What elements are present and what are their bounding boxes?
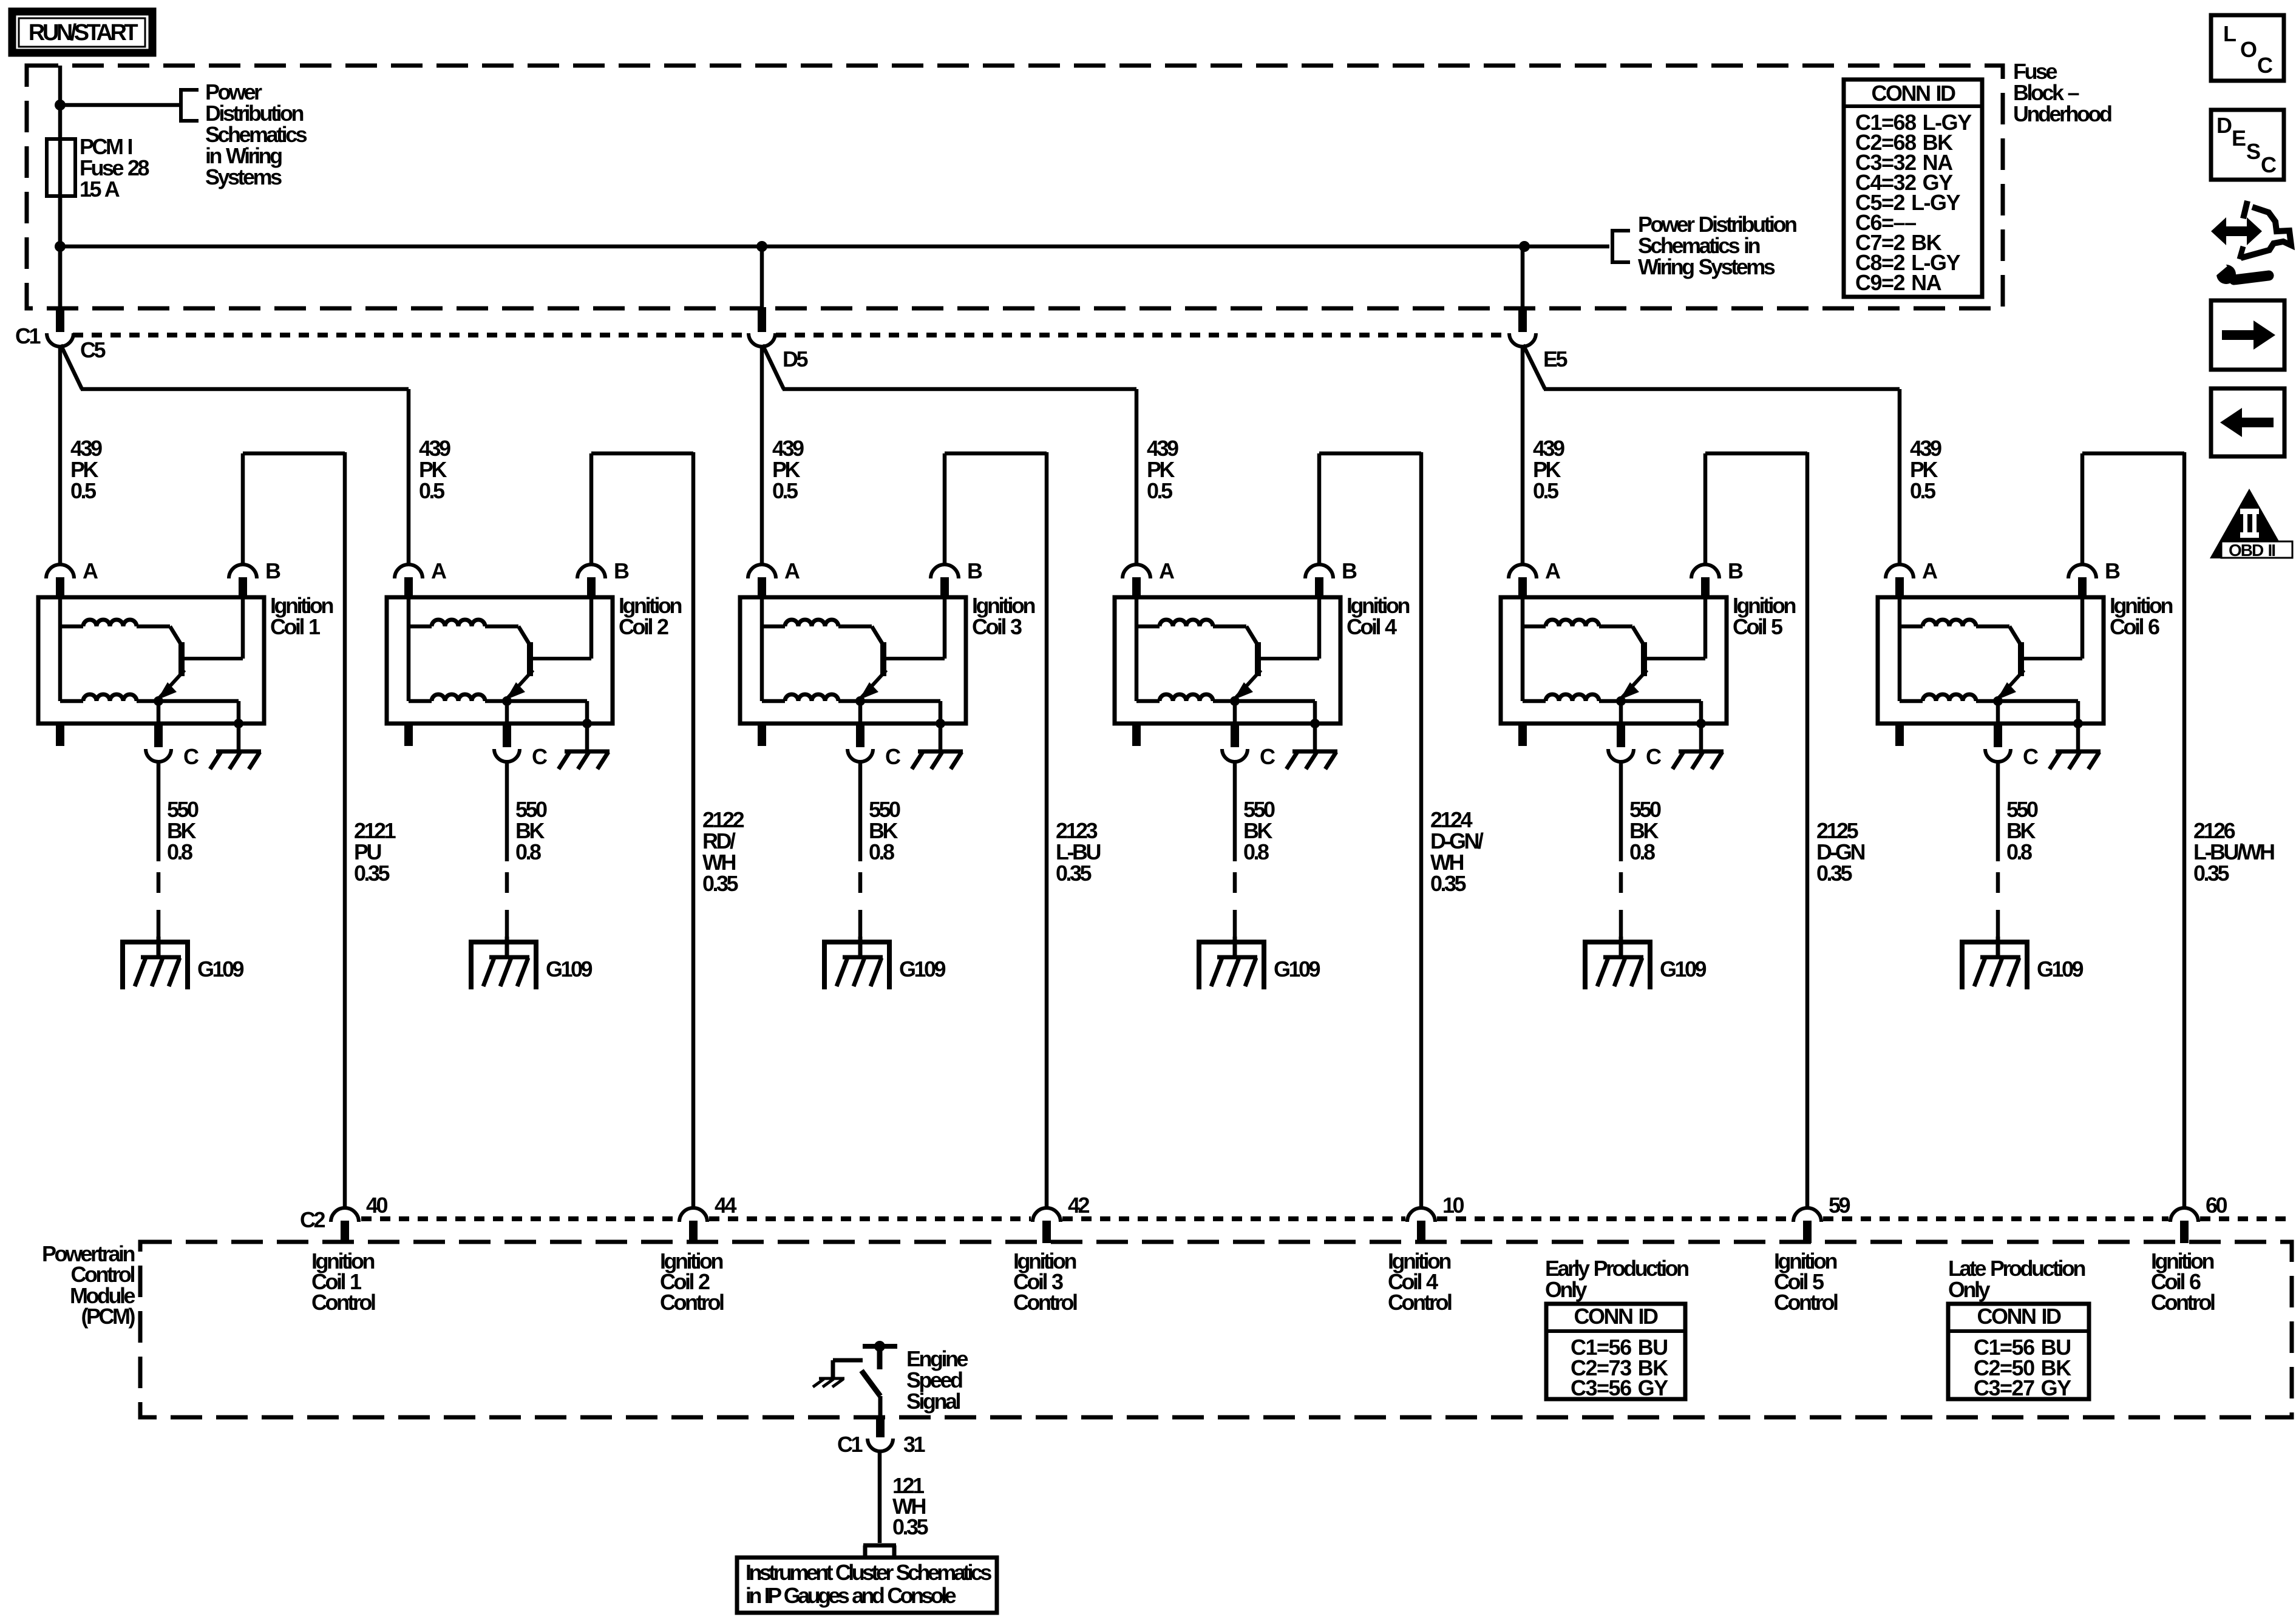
ground G109 (coil 1) bbox=[120, 937, 190, 989]
ground G109 (coil 3) bbox=[822, 937, 892, 989]
coil 5 ground junction on case bbox=[1696, 719, 1706, 728]
label pin C (coil 4) bbox=[1260, 744, 1275, 769]
coil 2 ground junction on case bbox=[582, 719, 592, 728]
svg-text:G109: G109 bbox=[546, 957, 593, 981]
coil 3 internal ground link bbox=[860, 701, 940, 724]
svg-text:B: B bbox=[1342, 558, 1357, 583]
svg-text:0.35: 0.35 bbox=[702, 871, 739, 896]
wire coil 3 control from pin B bbox=[945, 453, 1047, 566]
svg-text:Control: Control bbox=[660, 1290, 724, 1315]
label pin A (coil 1) bbox=[83, 558, 98, 583]
label G109 (coil 6) bbox=[2037, 957, 2084, 981]
label C2 (PCM connector) bbox=[300, 1207, 325, 1232]
coil 1 case ground bbox=[210, 724, 261, 769]
ignition coil 6 pin A connector bbox=[1886, 564, 1914, 598]
coil 3 case ground bbox=[912, 724, 963, 769]
label pin B (coil 1) bbox=[265, 558, 280, 583]
label G109 (coil 1) bbox=[197, 957, 244, 981]
label Ignition Coil 3 bbox=[972, 593, 1034, 639]
label circuit 439 PK 0.5 (coil 6 feed) bbox=[1910, 436, 1941, 503]
label G109 (coil 5) bbox=[1660, 957, 1707, 981]
label Ignition Coil 6 bbox=[2110, 593, 2172, 639]
svg-text:15 A: 15 A bbox=[80, 177, 120, 202]
wire coil 1 pin C to ground (550 BK) bbox=[157, 762, 161, 937]
label pin 42 bbox=[1068, 1193, 1090, 1218]
svg-text:C: C bbox=[183, 744, 199, 769]
ignition coil 2 pin B connector bbox=[577, 564, 605, 598]
svg-text:0.5: 0.5 bbox=[70, 478, 97, 503]
wire coil 2 control to PCM pin 44 bbox=[691, 452, 696, 1207]
coil 1 emitter junction bbox=[154, 696, 163, 706]
coil 1 secondary winding bbox=[60, 694, 158, 701]
ignition coil 1 pin B connector bbox=[229, 564, 257, 598]
label pin C (coil 2) bbox=[532, 744, 548, 769]
svg-text:G109: G109 bbox=[197, 957, 244, 981]
label pin C (coil 6) bbox=[2023, 744, 2039, 769]
ignition coil 3 box bbox=[740, 597, 966, 724]
svg-text:0.5: 0.5 bbox=[419, 478, 445, 503]
label Ignition Coil 5 Control bbox=[1774, 1249, 1838, 1315]
coil 1 internal ground link bbox=[158, 701, 239, 724]
coil 6 emitter junction bbox=[1993, 696, 2003, 706]
coil 2 driver transistor bbox=[506, 597, 591, 700]
coil 5 internal ground link bbox=[1621, 701, 1701, 724]
coil 5 unused pin stub bbox=[1518, 724, 1527, 746]
svg-text:Coil 6: Coil 6 bbox=[2110, 614, 2159, 639]
label pin 31 bbox=[903, 1432, 926, 1457]
svg-text:A: A bbox=[1159, 558, 1175, 583]
svg-text:Only: Only bbox=[1948, 1277, 1990, 1302]
wire coil 3 control to PCM pin 42 bbox=[1045, 452, 1049, 1207]
ignition coil 1 pin A connector bbox=[46, 564, 74, 598]
label Powertrain Control Module (PCM) bbox=[42, 1241, 135, 1329]
coil 4 emitter junction bbox=[1230, 696, 1240, 706]
label circuit 2126 (coil 6 control) bbox=[2193, 818, 2274, 886]
coil 4 secondary winding bbox=[1136, 694, 1235, 701]
svg-text:G109: G109 bbox=[2037, 957, 2084, 981]
svg-text:D: D bbox=[2216, 113, 2232, 138]
svg-text:A: A bbox=[784, 558, 800, 583]
svg-text:C: C bbox=[885, 744, 901, 769]
fuse block - underhood dashed box bbox=[27, 66, 2003, 308]
svg-text:Coil 3: Coil 3 bbox=[972, 614, 1022, 639]
ignition coil 1 pin C connector bbox=[146, 724, 171, 762]
coil 4 internal ground link bbox=[1235, 701, 1315, 724]
label circuit 439 PK 0.5 (coil 3 feed) bbox=[772, 436, 804, 503]
svg-text:A: A bbox=[1922, 558, 1938, 583]
coil 4 primary winding bbox=[1136, 597, 1258, 701]
ground G109 (coil 4) bbox=[1197, 937, 1266, 989]
label Power Distribution Schematics in Wiring Systems bbox=[205, 80, 307, 189]
label Ignition Coil 1 bbox=[270, 593, 333, 639]
svg-text:Only: Only bbox=[1545, 1277, 1587, 1302]
ignition coil 3 pin A connector bbox=[748, 564, 776, 598]
wire coil 6 control from pin B bbox=[2082, 453, 2184, 566]
label pin B (coil 2) bbox=[614, 558, 629, 583]
engine speed signal switch lever bbox=[861, 1371, 880, 1417]
label Engine Speed Signal bbox=[906, 1346, 968, 1414]
label pin 60 bbox=[2206, 1193, 2227, 1218]
svg-text:10: 10 bbox=[1442, 1193, 1464, 1218]
svg-text:C: C bbox=[2257, 53, 2273, 78]
wire coil 1 control to PCM pin 40 bbox=[343, 452, 347, 1207]
label circuit 439 PK 0.5 (coil 1 feed) bbox=[70, 436, 102, 503]
early production CONN ID table bbox=[1546, 1304, 1685, 1400]
label pin C (coil 1) bbox=[183, 744, 199, 769]
wire bus to connector E5 bbox=[1521, 246, 1525, 308]
ignition coil 5 pin A connector bbox=[1509, 564, 1537, 598]
coil 4 driver transistor bbox=[1234, 597, 1319, 700]
coil 5 primary winding bbox=[1523, 597, 1644, 701]
wire E5 to ignition coil 5 pin A bbox=[1521, 346, 1525, 566]
PCM pin 60 connector bbox=[2170, 1208, 2198, 1243]
svg-text:B: B bbox=[2105, 558, 2120, 583]
ignition coil 2 box bbox=[387, 597, 613, 724]
svg-text:C: C bbox=[1260, 744, 1275, 769]
wire C5 branch to ignition coil 2 pin A bbox=[61, 345, 409, 566]
svg-text:B: B bbox=[265, 558, 280, 583]
ignition coil 2 pin A connector bbox=[395, 564, 423, 598]
wire E5 branch to ignition coil 6 pin A bbox=[1523, 345, 1900, 566]
label G109 (coil 3) bbox=[899, 957, 946, 981]
off-page terminal fork bbox=[863, 1545, 896, 1559]
powertrain control module (PCM) dashed box bbox=[140, 1242, 2292, 1417]
coil 3 driver transistor bbox=[859, 597, 945, 700]
coil 6 secondary winding bbox=[1900, 694, 1998, 701]
PCM pin 59 connector bbox=[1793, 1208, 1821, 1243]
svg-text:0.8: 0.8 bbox=[869, 839, 894, 864]
label G109 (coil 4) bbox=[1274, 957, 1320, 981]
svg-text:B: B bbox=[614, 558, 629, 583]
wire coil 2 control from pin B bbox=[591, 453, 693, 566]
svg-text:L: L bbox=[2223, 21, 2237, 46]
label circuit 550 BK 0.8 (coil 6) bbox=[2006, 797, 2038, 864]
label circuit 2122 (coil 2 control) bbox=[702, 807, 744, 896]
svg-text:C3=27 GY: C3=27 GY bbox=[1974, 1375, 2071, 1400]
label circuit 550 BK 0.8 (coil 1) bbox=[167, 797, 199, 864]
wire 121 WH to instrument cluster bbox=[878, 1451, 882, 1543]
coil 3 emitter junction bbox=[855, 696, 865, 706]
wire fuse to connector C1 bbox=[58, 196, 63, 308]
ignition coil 4 pin C connector bbox=[1222, 724, 1248, 762]
svg-text:in IP Gauges and Console: in IP Gauges and Console bbox=[746, 1583, 956, 1608]
label Ignition Coil 2 bbox=[619, 593, 681, 639]
ignition coil 4 pin A connector bbox=[1123, 564, 1150, 598]
coil 6 case ground bbox=[2050, 724, 2101, 769]
svg-text:Coil 2: Coil 2 bbox=[619, 614, 668, 639]
instrument cluster schematics reference box bbox=[737, 1558, 997, 1613]
svg-text:A: A bbox=[431, 558, 447, 583]
label circuit 2125 (coil 5 control) bbox=[1816, 818, 1864, 886]
connector D5 socket bbox=[749, 333, 775, 347]
svg-text:B: B bbox=[1728, 558, 1743, 583]
wire D5 branch to ignition coil 4 pin A bbox=[763, 345, 1136, 566]
wire coil 1 control from pin B bbox=[243, 453, 345, 566]
svg-text:C3=56 GY: C3=56 GY bbox=[1571, 1375, 1668, 1400]
svg-text:0.35: 0.35 bbox=[354, 861, 390, 886]
label Ignition Coil 1 Control bbox=[311, 1249, 375, 1315]
label Ignition Coil 6 Control bbox=[2151, 1249, 2215, 1315]
svg-text:44: 44 bbox=[715, 1193, 737, 1218]
ground G109 (coil 6) bbox=[1960, 937, 2029, 989]
label pin A (coil 4) bbox=[1159, 558, 1175, 583]
svg-text:0.8: 0.8 bbox=[167, 839, 192, 864]
ignition coil 6 pin B connector bbox=[2068, 564, 2096, 598]
label Late Production Only bbox=[1948, 1256, 2085, 1302]
wire coil 2 pin C to ground (550 BK) bbox=[505, 762, 509, 937]
PCM pin 31 connector C1 bbox=[868, 1417, 893, 1451]
label Ignition Coil 3 Control bbox=[1013, 1249, 1077, 1315]
icon wrench / diagnostic pointer bbox=[2210, 201, 2291, 284]
svg-text:C1: C1 bbox=[837, 1432, 863, 1457]
svg-text:A: A bbox=[1545, 558, 1561, 583]
label circuit 439 PK 0.5 (coil 5 feed) bbox=[1533, 436, 1564, 503]
label Ignition Coil 4 bbox=[1347, 593, 1409, 639]
svg-text:C5: C5 bbox=[80, 337, 106, 362]
label pin A (coil 3) bbox=[784, 558, 800, 583]
ignition coil 3 pin C connector bbox=[847, 724, 873, 762]
svg-text:0.5: 0.5 bbox=[1147, 478, 1173, 503]
coil 1 primary winding bbox=[60, 597, 182, 701]
wire from RUN/START into fuse block bbox=[58, 66, 63, 308]
label Ignition Coil 2 Control bbox=[660, 1249, 724, 1315]
wire coil 5 pin C to ground (550 BK) bbox=[1619, 762, 1623, 937]
coil 1 driver transistor bbox=[157, 597, 243, 700]
icon OBD II triangle bbox=[2210, 489, 2292, 560]
svg-text:Control: Control bbox=[1013, 1290, 1077, 1315]
icon right-arrow box bbox=[2211, 300, 2284, 370]
svg-text:Control: Control bbox=[1774, 1290, 1838, 1315]
label PCM I Fuse 28 15 A bbox=[80, 134, 149, 202]
svg-text:0.35: 0.35 bbox=[2193, 861, 2230, 886]
wire coil 4 control to PCM pin 10 bbox=[1419, 452, 1424, 1207]
icon DESC box bbox=[2211, 110, 2284, 180]
svg-text:C9=2 NA: C9=2 NA bbox=[1855, 270, 1942, 295]
svg-text:Coil 1: Coil 1 bbox=[270, 614, 321, 639]
label pin A (coil 2) bbox=[431, 558, 447, 583]
coil 6 driver transistor bbox=[1997, 597, 2082, 700]
svg-text:S: S bbox=[2246, 139, 2261, 164]
connector C1/C5 socket bbox=[47, 333, 73, 347]
coil 2 case ground bbox=[559, 724, 610, 769]
coil 6 ground junction on case bbox=[2073, 719, 2083, 728]
svg-text:C2: C2 bbox=[300, 1207, 325, 1232]
svg-text:0.35: 0.35 bbox=[1056, 861, 1092, 886]
coil 6 internal ground link bbox=[1998, 701, 2078, 724]
svg-text:60: 60 bbox=[2206, 1193, 2227, 1218]
ignition coil 5 pin B connector bbox=[1691, 564, 1719, 598]
PCM pin 42 connector bbox=[1033, 1208, 1061, 1243]
junction node on PCM I fuse feed bbox=[55, 100, 66, 110]
svg-text:0.8: 0.8 bbox=[1243, 839, 1269, 864]
svg-text:(PCM): (PCM) bbox=[81, 1304, 135, 1329]
label circuit 121 WH 0.35 bbox=[892, 1473, 929, 1539]
connector D5 pin stub bbox=[758, 307, 766, 332]
reference bracket (power distribution 1) bbox=[180, 88, 199, 123]
label pin 40 bbox=[366, 1193, 388, 1218]
wire coil 6 control to PCM pin 60 bbox=[2182, 452, 2187, 1207]
ignition coil 4 pin B connector bbox=[1305, 564, 1333, 598]
svg-text:G109: G109 bbox=[1660, 957, 1707, 981]
svg-text:C1: C1 bbox=[15, 324, 41, 348]
label Power Distribution Schematics in Wiring Systems (right) bbox=[1638, 212, 1796, 279]
coil 3 unused pin stub bbox=[758, 724, 766, 746]
label circuit 550 BK 0.8 (coil 3) bbox=[869, 797, 900, 864]
svg-text:C: C bbox=[532, 744, 548, 769]
svg-text:E5: E5 bbox=[1543, 347, 1568, 371]
label pin C (coil 3) bbox=[885, 744, 901, 769]
engine speed signal internal ground bbox=[813, 1378, 844, 1387]
svg-text:Control: Control bbox=[1388, 1290, 1452, 1315]
svg-text:D5: D5 bbox=[783, 347, 808, 371]
ignition coil 6 pin C connector bbox=[1985, 724, 2011, 762]
label circuit 439 PK 0.5 (coil 4 feed) bbox=[1147, 436, 1178, 503]
label pin C (coil 5) bbox=[1646, 744, 1662, 769]
svg-text:0.35: 0.35 bbox=[1816, 861, 1853, 886]
svg-text:0.8: 0.8 bbox=[1629, 839, 1655, 864]
label circuit 2121 (coil 1 control) bbox=[354, 818, 396, 886]
svg-text:A: A bbox=[83, 558, 98, 583]
connector E5 pin stub bbox=[1518, 307, 1527, 332]
wire to power distribution reference bbox=[60, 103, 181, 107]
svg-text:0.5: 0.5 bbox=[1910, 478, 1936, 503]
svg-text:G109: G109 bbox=[899, 957, 946, 981]
connector E5 socket bbox=[1509, 333, 1536, 347]
svg-text:0.35: 0.35 bbox=[1430, 871, 1467, 896]
svg-text:CONN ID: CONN ID bbox=[1977, 1304, 2062, 1329]
svg-text:Control: Control bbox=[2151, 1290, 2215, 1315]
label E5 bbox=[1543, 347, 1568, 371]
wire D5 to ignition coil 3 pin A bbox=[760, 346, 764, 566]
svg-text:Coil 4: Coil 4 bbox=[1347, 614, 1397, 639]
svg-text:0.8: 0.8 bbox=[515, 839, 541, 864]
label circuit 2123 (coil 3 control) bbox=[1056, 818, 1100, 886]
wire coil 6 pin C to ground (550 BK) bbox=[1996, 762, 2000, 937]
label circuit 550 BK 0.8 (coil 4) bbox=[1243, 797, 1275, 864]
coil 1 unused pin stub bbox=[56, 724, 64, 746]
svg-text:Underhood: Underhood bbox=[2013, 101, 2111, 126]
PCM pin 44 connector bbox=[679, 1208, 707, 1243]
label pin 44 bbox=[715, 1193, 737, 1218]
ignition coil 5 box bbox=[1501, 597, 1727, 724]
ignition coil 6 box bbox=[1878, 597, 2104, 724]
svg-text:E: E bbox=[2232, 126, 2246, 151]
svg-text:0.5: 0.5 bbox=[772, 478, 798, 503]
reference bracket (power distribution 2) bbox=[1611, 229, 1630, 264]
connector C1/C5 pin stub bbox=[56, 307, 64, 332]
PCM pin 40 connector bbox=[331, 1208, 359, 1243]
label pin B (coil 3) bbox=[967, 558, 982, 583]
coil 5 secondary winding bbox=[1523, 694, 1621, 701]
svg-text:Signal: Signal bbox=[906, 1389, 960, 1414]
ignition coil 2 pin C connector bbox=[494, 724, 520, 762]
ignition coil 1 box bbox=[38, 597, 264, 724]
svg-text:CONN ID: CONN ID bbox=[1872, 81, 1956, 106]
svg-text:G109: G109 bbox=[1274, 957, 1320, 981]
label C5 bbox=[80, 337, 106, 362]
ground G109 (coil 2) bbox=[469, 937, 538, 989]
svg-text:40: 40 bbox=[366, 1193, 388, 1218]
coil 3 primary winding bbox=[762, 597, 883, 701]
svg-text:59: 59 bbox=[1829, 1193, 1850, 1218]
svg-text:O: O bbox=[2240, 37, 2257, 62]
label circuit 550 BK 0.8 (coil 5) bbox=[1629, 797, 1661, 864]
svg-text:Instrument Cluster Schematics: Instrument Cluster Schematics bbox=[746, 1560, 991, 1585]
coil 2 secondary winding bbox=[409, 694, 507, 701]
wire coil 5 control to PCM pin 59 bbox=[1805, 452, 1810, 1207]
label Ignition Coil 5 bbox=[1733, 593, 1795, 639]
PCM pin 10 connector bbox=[1407, 1208, 1435, 1243]
coil 1 ground junction on case bbox=[234, 719, 243, 728]
label C1 (pin 31) bbox=[837, 1432, 863, 1457]
label circuit 550 BK 0.8 (coil 2) bbox=[515, 797, 547, 864]
power bus wire bbox=[60, 245, 1609, 249]
ignition coil 5 pin C connector bbox=[1608, 724, 1634, 762]
bus junction at D5 drop bbox=[756, 241, 767, 252]
ground G109 (coil 5) bbox=[1583, 937, 1652, 989]
coil 3 secondary winding bbox=[762, 694, 860, 701]
coil 5 case ground bbox=[1673, 724, 1724, 769]
RUN/START hot-in-run bus label box bbox=[12, 12, 152, 53]
svg-text:B: B bbox=[967, 558, 982, 583]
engine speed signal generator bbox=[833, 1341, 897, 1379]
late production CONN ID table bbox=[1948, 1304, 2089, 1400]
wire coil 5 control from pin B bbox=[1705, 453, 1807, 566]
svg-text:CONN ID: CONN ID bbox=[1574, 1304, 1659, 1329]
svg-text:0.35: 0.35 bbox=[892, 1514, 929, 1539]
svg-text:0.8: 0.8 bbox=[2006, 839, 2032, 864]
wire bus to connector D5 bbox=[760, 246, 764, 308]
fuse PCM I Fuse 28 15A bbox=[47, 139, 75, 196]
coil 6 unused pin stub bbox=[1895, 724, 1904, 746]
label circuit 439 PK 0.5 (coil 2 feed) bbox=[419, 436, 450, 503]
top CONN ID table bbox=[1844, 80, 1982, 297]
wire coil 3 pin C to ground (550 BK) bbox=[858, 762, 863, 937]
bus junction at C1 drop bbox=[55, 241, 66, 252]
label pin 10 bbox=[1442, 1193, 1464, 1218]
label pin 59 bbox=[1829, 1193, 1850, 1218]
label pin B (coil 4) bbox=[1342, 558, 1357, 583]
top CONN ID table entries bbox=[1855, 110, 1972, 295]
svg-text:Wiring Systems: Wiring Systems bbox=[1638, 254, 1775, 279]
icon LOC box bbox=[2211, 15, 2284, 81]
PCM connector dotted line bbox=[361, 1216, 2289, 1221]
svg-text:C: C bbox=[1646, 744, 1662, 769]
svg-text:31: 31 bbox=[903, 1432, 926, 1457]
svg-text:Control: Control bbox=[311, 1290, 375, 1315]
svg-text:C: C bbox=[2023, 744, 2039, 769]
svg-text:C: C bbox=[2261, 152, 2277, 177]
label pin A (coil 6) bbox=[1922, 558, 1938, 583]
svg-text:OBD II: OBD II bbox=[2229, 541, 2275, 560]
coil 6 primary winding bbox=[1900, 597, 2021, 701]
wire coil 4 control from pin B bbox=[1319, 453, 1421, 566]
label pin A (coil 5) bbox=[1545, 558, 1561, 583]
coil 2 unused pin stub bbox=[404, 724, 413, 746]
label circuit 2124 (coil 4 control) bbox=[1430, 807, 1484, 896]
label Fuse Block - Underhood bbox=[2013, 59, 2111, 126]
icon left-arrow box bbox=[2211, 388, 2284, 456]
coil 2 internal ground link bbox=[507, 701, 587, 724]
wire coil 4 pin C to ground (550 BK) bbox=[1233, 762, 1237, 937]
harness connector dotted line (C5/D5/E5 row) bbox=[73, 333, 1509, 337]
label Early Production Only bbox=[1545, 1256, 1688, 1302]
coil 2 emitter junction bbox=[502, 696, 512, 706]
coil 5 driver transistor bbox=[1620, 597, 1705, 700]
coil 2 primary winding bbox=[409, 597, 530, 701]
wire C5 to ignition coil 1 pin A bbox=[58, 346, 63, 566]
label Ignition Coil 4 Control bbox=[1388, 1249, 1452, 1315]
